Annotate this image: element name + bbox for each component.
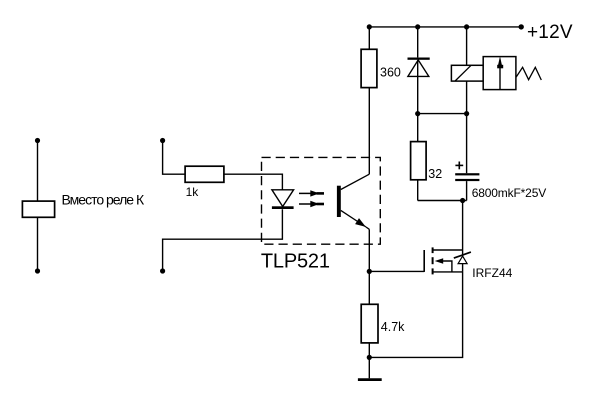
wire: gate node to R4 <box>368 271 370 304</box>
ground <box>358 378 382 381</box>
valve return spring <box>516 67 541 80</box>
resistor R1 1k <box>185 166 224 182</box>
wire: diode stubs <box>462 250 464 256</box>
node: rail at D2 <box>415 24 420 29</box>
LED D1 (inside optocoupler) <box>272 190 294 207</box>
node: input terminal bottom <box>160 268 165 273</box>
resistor R4 4.7k <box>361 304 378 343</box>
svg-text:6800mkF*25V: 6800mkF*25V <box>472 186 547 200</box>
capacitor C1 plates <box>455 173 479 175</box>
svg-text:+12V: +12V <box>527 22 573 43</box>
node: gate junction <box>367 269 372 274</box>
wire: collector up to R2 <box>368 88 370 175</box>
svg-text:360: 360 <box>380 65 401 79</box>
wire: to ground symbol <box>368 357 370 378</box>
node: drain junction <box>460 198 465 203</box>
svg-text:Вместо реле К: Вместо реле К <box>62 191 145 207</box>
wire: rail to D2 <box>417 27 419 58</box>
wire: rail to valve coil <box>466 27 468 65</box>
wire: R4 to ground node <box>368 343 370 358</box>
node: ground junction <box>367 355 372 360</box>
wire: input down to 1k <box>163 141 186 175</box>
node: input terminal top <box>160 138 165 143</box>
wire: +12V top rail <box>369 26 521 28</box>
diode D2 (flyback) <box>408 58 430 60</box>
wire: gate to junction <box>369 270 424 272</box>
valve solenoid coil Y1 <box>451 65 483 81</box>
svg-text:1k: 1k <box>186 185 200 199</box>
wire: coil to mid junction <box>466 81 468 114</box>
relay contact K (box) <box>22 201 54 217</box>
light arrow lower <box>299 203 312 205</box>
node: mid junction left <box>415 111 420 116</box>
svg-text:IRFZ44: IRFZ44 <box>472 266 512 280</box>
node: left terminal bottom <box>35 268 40 273</box>
node: rail at valve <box>464 24 469 29</box>
MOSFET Q2 IRFZ44 <box>433 249 463 251</box>
wire: source down and across to ground node <box>369 272 462 358</box>
optocoupler U1 TLP521 dashed box <box>262 157 381 244</box>
node: +12V terminal <box>519 24 524 29</box>
wire: R3 to drain node <box>417 180 419 201</box>
wire: junction to capacitor <box>466 114 468 174</box>
wire: emitter down to gate node <box>368 229 370 271</box>
valve body (box with arrow) <box>483 57 516 90</box>
wire: LED cathode return <box>163 209 283 271</box>
wire: D2 to mid junction <box>417 60 419 113</box>
node: rail at R2 <box>367 24 372 29</box>
wire: mid junction horizontal <box>418 113 467 115</box>
MOSFET body diode <box>458 256 467 264</box>
svg-text:TLP521: TLP521 <box>261 251 330 273</box>
capacitor C1 plus sign <box>455 164 463 166</box>
wire: rail to R2 <box>368 27 370 49</box>
wire: junction to R3 <box>417 114 419 142</box>
resistor R3 32 <box>411 142 427 180</box>
resistor R2 360 <box>361 49 377 87</box>
phototransistor Q1 (inside optocoupler) <box>337 186 341 217</box>
svg-text:32: 32 <box>428 167 442 181</box>
wire: relay branch upper <box>37 141 39 202</box>
wire: relay branch lower <box>37 217 39 271</box>
wire: junction down to drain <box>462 201 464 251</box>
wire: 1k to LED anode <box>224 174 283 190</box>
svg-text:4.7k: 4.7k <box>381 320 405 334</box>
node: mid junction right <box>464 111 469 116</box>
node: left terminal top <box>35 138 40 143</box>
wire: drain node horizontal <box>418 200 467 202</box>
light arrow upper <box>299 192 312 194</box>
wire: capacitor to drain wire <box>466 181 468 200</box>
